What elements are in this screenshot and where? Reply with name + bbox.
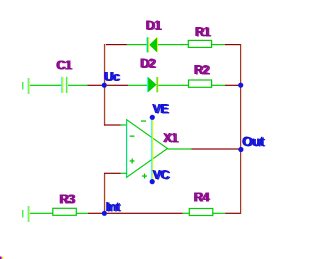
wire op-amp bottom input from Int column	[104, 173, 121, 174]
label C1	[56, 58, 73, 72]
svg-text:Int: Int	[105, 200, 120, 214]
label R4	[193, 190, 210, 204]
svg-text:D2: D2	[140, 57, 156, 71]
svg-text:D1: D1	[145, 19, 161, 33]
wire D1 left pin lead	[127, 44, 147, 45]
label VE	[152, 102, 169, 116]
wire top row from left column corner to D1	[104, 44, 127, 45]
label D2	[140, 57, 157, 71]
wire R1 to right rail	[225, 44, 241, 45]
resistor R3	[53, 208, 77, 215]
wire terminal to C1	[30, 85, 61, 86]
wire C1 right pin lead	[68, 85, 87, 86]
op-amp VE/VC power pin vertical line	[151, 117, 153, 181]
op-amp VC power pin marker +	[142, 174, 147, 179]
label Uc	[104, 70, 121, 84]
wire between D1 and R1 (pin leads)	[158, 44, 188, 45]
svg-text:VE: VE	[152, 102, 168, 116]
resistor R2	[189, 80, 212, 87]
wire Int node to R4	[107, 213, 183, 214]
wire C1 to node Uc	[88, 85, 105, 86]
wire R4 left pin lead	[183, 213, 190, 214]
node VE	[150, 115, 155, 120]
wire Uc node to D2	[107, 85, 128, 86]
node Out	[238, 147, 243, 152]
diode D2	[147, 77, 158, 92]
screen corner mark bottom-left	[0, 257, 3, 259]
label R1	[195, 25, 212, 39]
wire R4 to right rail corner	[225, 213, 241, 214]
label X1	[163, 131, 179, 145]
diode D1	[147, 37, 159, 52]
wire terminal to R3	[30, 213, 53, 214]
wire output to Out node	[192, 148, 241, 149]
label D1	[145, 19, 162, 33]
label VC	[152, 168, 170, 182]
svg-text:X1: X1	[163, 131, 178, 145]
capacitor C1	[61, 77, 68, 93]
svg-text:Uc: Uc	[104, 70, 120, 84]
svg-text:R3: R3	[59, 192, 75, 206]
svg-text:VC: VC	[152, 168, 169, 182]
wire R2 to right rail node	[225, 85, 241, 86]
wire op-amp top input from left column	[104, 124, 121, 125]
op-amp X1	[126, 120, 168, 178]
wire op-amp output pin lead	[168, 148, 192, 149]
label Int	[105, 200, 122, 214]
svg-text:Out: Out	[242, 134, 265, 149]
wire R4 right pin lead	[213, 213, 225, 214]
wire op-amp bottom input pin lead	[121, 173, 127, 174]
resistor R4	[189, 209, 213, 216]
node Uc	[102, 83, 107, 88]
op-amp inverting input marker -	[130, 136, 135, 137]
wire R3 to node Int	[88, 213, 104, 214]
svg-text:C1: C1	[56, 58, 72, 72]
label R3	[59, 192, 76, 206]
wire right rail vertical	[240, 44, 242, 214]
svg-text:R1: R1	[195, 25, 211, 39]
node at R2 and right rail	[238, 83, 243, 88]
node Int	[102, 211, 107, 216]
label Out	[242, 134, 266, 149]
terminal T2 (bottom left)	[22, 206, 30, 222]
wire R2 right pin lead	[212, 85, 225, 86]
svg-text:R2: R2	[194, 63, 210, 77]
wire D2 left pin lead	[128, 85, 147, 86]
label R2	[194, 63, 211, 77]
svg-text:R4: R4	[193, 190, 209, 204]
wire R3 right pin lead	[76, 213, 88, 214]
op-amp non-inverting input marker +	[130, 159, 135, 164]
op-amp VE power pin marker -	[141, 120, 146, 121]
wire left column vertical (Uc up to top row, down to op-amp input)	[104, 44, 106, 126]
wire op-amp top input pin lead	[121, 124, 127, 125]
node VC	[150, 179, 155, 184]
wire between D2 and R2 (pin leads)	[158, 85, 188, 86]
resistor R1	[188, 40, 211, 47]
terminal T1 (top left)	[22, 78, 30, 94]
wire R1 right pin lead	[212, 44, 225, 45]
wire bottom input vertical from Int	[104, 173, 106, 213]
